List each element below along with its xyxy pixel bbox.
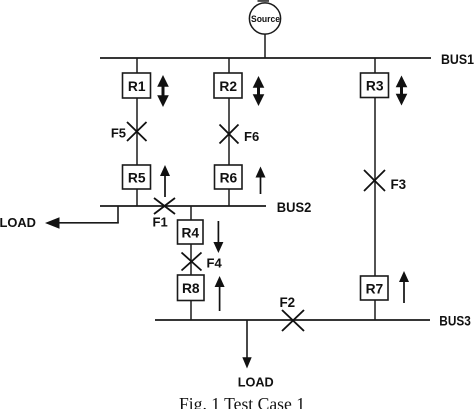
wire R6 to BUS2 [228, 189, 230, 206]
svg-text:Fig. 1 Test Case 1: Fig. 1 Test Case 1 [179, 394, 305, 409]
arrow both-ways at R3 [396, 76, 408, 106]
source G1 [249, 0, 280, 34]
relay R1 [123, 73, 151, 98]
svg-text:F3: F3 [391, 177, 407, 192]
wire BUS1 to R3 [374, 58, 376, 73]
relay R2 [214, 73, 242, 98]
arrow up at R7 [399, 271, 409, 303]
arrow down at R4 [213, 221, 223, 253]
fault F3 [364, 170, 385, 191]
relay R5 [123, 165, 151, 189]
fault F5 [127, 122, 147, 141]
wire BUS1 to R1 [136, 58, 138, 73]
arrow up at R6 [256, 167, 266, 195]
fault F6 [220, 125, 239, 144]
svg-text:LOAD: LOAD [0, 215, 36, 230]
wire R5 to BUS2 [136, 189, 138, 206]
arrow up at R8 [215, 276, 225, 311]
wire R7 to BUS3 [374, 300, 376, 320]
wire R2 to R6 [228, 98, 230, 165]
wire BUS3 load drop [246, 320, 248, 359]
relay R6 [215, 165, 243, 189]
svg-text:R7: R7 [366, 281, 384, 296]
arrow down to LOAD [242, 357, 251, 368]
relay R7 [361, 276, 389, 300]
wire R4 to R8 [190, 244, 192, 275]
svg-text:F4: F4 [207, 256, 223, 271]
svg-text:F5: F5 [111, 126, 126, 141]
svg-text:LOAD: LOAD [238, 374, 274, 389]
svg-text:BUS3: BUS3 [439, 312, 471, 328]
wire source to BUS1 [264, 34, 266, 58]
svg-text:R2: R2 [219, 79, 237, 94]
svg-text:F1: F1 [153, 214, 168, 229]
wire R1 to R5 [136, 98, 138, 165]
svg-text:R6: R6 [220, 170, 238, 185]
svg-text:BUS2: BUS2 [277, 199, 312, 215]
relay R4 [178, 220, 204, 244]
wire R8 to BUS3 [190, 301, 192, 321]
svg-text:Source: Source [251, 13, 280, 24]
wire R3 to R7 [374, 98, 376, 277]
svg-text:R5: R5 [128, 170, 146, 185]
arrow to left LOAD [45, 217, 60, 229]
svg-text:F2: F2 [280, 295, 296, 310]
wire BUS1 to R2 [228, 58, 230, 73]
svg-text:BUS1: BUS1 [441, 51, 474, 67]
fault F2 [282, 310, 304, 331]
relay R3 [361, 73, 389, 98]
fault F4 [182, 253, 202, 271]
relay R8 [178, 275, 205, 301]
svg-text:F6: F6 [244, 129, 259, 144]
wire BUS2 load tap [58, 206, 119, 223]
svg-text:R3: R3 [366, 79, 384, 94]
fault F1 [154, 198, 175, 214]
bus BUS1 [100, 57, 431, 59]
bus BUS3 [155, 319, 430, 321]
arrow both-ways at R1 [157, 75, 169, 107]
arrow up at R5 [160, 165, 170, 197]
wire BUS2 to R4 [190, 206, 192, 220]
svg-text:R8: R8 [182, 281, 200, 296]
bus BUS2 [100, 205, 266, 207]
svg-text:R1: R1 [128, 79, 146, 94]
svg-text:R4: R4 [181, 225, 199, 240]
arrow both-ways at R2 [253, 76, 265, 106]
